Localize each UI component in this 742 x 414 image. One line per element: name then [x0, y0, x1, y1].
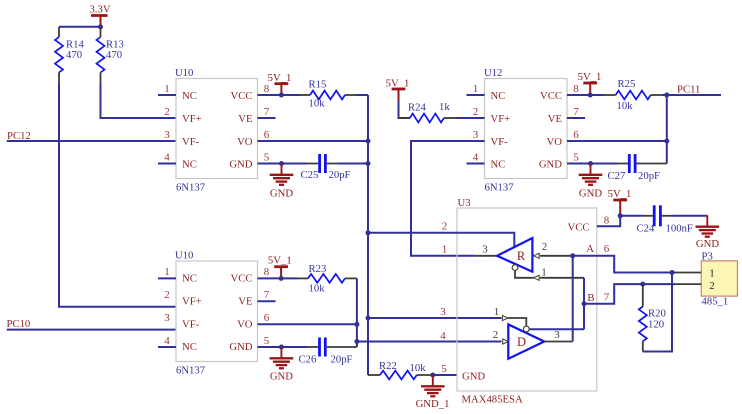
- junction A-P3 node: [670, 270, 675, 275]
- resistor R20 value 120: [648, 319, 664, 331]
- U10 designator: [175, 250, 193, 262]
- svg-text:C24: C24: [637, 223, 655, 235]
- resistor R25: [616, 91, 651, 100]
- wire U10b VO row: [258, 323, 357, 325]
- U3 pin number 7: [604, 292, 610, 304]
- capacitor C24: [654, 205, 660, 226]
- resistor R20: [639, 307, 647, 342]
- svg-text:8: 8: [264, 266, 270, 278]
- junction DI tee on R23 bus: [354, 339, 359, 344]
- power port 5V_1 at R24 label: [386, 77, 410, 89]
- svg-text:VO: VO: [237, 136, 253, 148]
- U3 inner pin number 3 at D out: [554, 329, 560, 341]
- resistor R13 designator: [106, 39, 124, 51]
- net label PC10: [7, 318, 31, 330]
- optocoupler U10 body: [176, 261, 258, 362]
- svg-text:MAX485ESA: MAX485ESA: [462, 394, 523, 406]
- svg-text:470: 470: [106, 49, 122, 61]
- junction A node inner: [570, 253, 575, 258]
- U3 pin number 5: [441, 363, 447, 375]
- U10 pin name GND: [229, 341, 252, 353]
- net label PC11: [677, 83, 700, 95]
- U10 pin number 7: [264, 106, 270, 118]
- svg-text:C27: C27: [608, 170, 626, 182]
- svg-text:2: 2: [164, 289, 170, 301]
- power port 5V_1 at U10b label: [268, 255, 292, 267]
- svg-text:R15: R15: [309, 79, 327, 91]
- connector P3 body: [701, 261, 737, 296]
- U10b pin 7 stub: [258, 300, 276, 302]
- svg-text:100nF: 100nF: [666, 223, 693, 235]
- svg-text:R24: R24: [408, 102, 426, 114]
- U10 pin number 1: [164, 266, 170, 278]
- svg-text:6N137: 6N137: [176, 364, 206, 376]
- svg-text:VF+: VF+: [491, 113, 511, 125]
- U3 receiver letter R: [517, 249, 526, 263]
- ground GND label at U10a: [270, 187, 293, 199]
- U12 pin 7 stub: [567, 117, 585, 119]
- U10 pin name NC: [182, 159, 197, 171]
- U12 pin number 5: [573, 151, 579, 163]
- U10 pin name VF-: [182, 136, 200, 148]
- svg-text:5: 5: [264, 335, 270, 347]
- U10 pin name VF+: [182, 113, 202, 125]
- wire PC11 bus vertical: [666, 95, 668, 164]
- svg-text:VE: VE: [548, 113, 562, 125]
- svg-text:3: 3: [164, 129, 170, 141]
- wire R input 2 to A node: [540, 255, 573, 257]
- U3 pin name GND: [462, 371, 485, 383]
- U10 pin name VF-: [182, 319, 200, 331]
- wire bus corner to R22: [368, 374, 380, 376]
- capacitor C25 value 20pF: [329, 169, 351, 181]
- U10a pin 1 stub: [158, 94, 176, 96]
- ground symbol GND at C24: [696, 215, 720, 236]
- wire R25 to PC11: [662, 94, 721, 96]
- svg-text:3: 3: [482, 243, 488, 255]
- resistor R24 right lead: [444, 117, 456, 119]
- U10 pin name VF+: [182, 296, 202, 308]
- junction VO1 on bus: [366, 139, 371, 144]
- U10 pin name VCC: [231, 90, 253, 102]
- U10 pin number 3: [164, 312, 170, 324]
- U3 inner pin number 1 at DE: [494, 306, 500, 318]
- U3 driver letter D: [517, 335, 526, 349]
- wire 3.3V node to R14 top: [59, 26, 101, 28]
- P3 net 485_1 label: [702, 296, 729, 308]
- svg-text:2: 2: [709, 280, 715, 292]
- U12 pin number 3: [473, 129, 479, 141]
- svg-text:20pF: 20pF: [638, 170, 660, 182]
- capacitor C24 left lead: [643, 215, 653, 217]
- resistor R13: [97, 37, 105, 73]
- wire R24 to U12 VF+: [456, 117, 485, 119]
- svg-text:D: D: [517, 335, 526, 349]
- junction GND_1 node: [430, 373, 435, 378]
- U3 pin name B: [587, 292, 594, 304]
- resistor R13 top lead: [100, 27, 102, 37]
- U10 pin name GND: [229, 159, 252, 171]
- svg-text:1: 1: [442, 244, 448, 256]
- svg-text:3: 3: [440, 306, 446, 318]
- svg-text:GND: GND: [539, 159, 562, 171]
- svg-text:5V_1: 5V_1: [608, 188, 632, 200]
- resistor R22 designator: [379, 360, 397, 372]
- svg-text:VF+: VF+: [182, 113, 202, 125]
- svg-text:NC: NC: [182, 159, 197, 171]
- U12 pin name NC: [491, 90, 506, 102]
- wire PC10 to U10b VF-: [7, 329, 176, 331]
- svg-text:2: 2: [164, 106, 170, 118]
- svg-text:3.3V: 3.3V: [89, 4, 110, 16]
- U3 driver triangle D: [508, 324, 544, 358]
- svg-text:PC10: PC10: [7, 318, 31, 330]
- U10 pin name VE: [238, 296, 252, 308]
- U3 pin name A: [586, 243, 594, 255]
- svg-text:10k: 10k: [617, 100, 634, 112]
- resistor R24 left lead: [399, 117, 410, 119]
- svg-text:7: 7: [573, 106, 579, 118]
- wire C24 row: [620, 215, 643, 217]
- U10b pin 4 stub: [158, 346, 176, 348]
- capacitor C24 value 100nF: [666, 223, 693, 235]
- svg-text:4: 4: [440, 330, 446, 342]
- svg-text:20pF: 20pF: [329, 169, 351, 181]
- svg-text:VF+: VF+: [182, 296, 202, 308]
- wire U12 GND row: [567, 163, 618, 165]
- svg-text:5V_1: 5V_1: [268, 255, 292, 267]
- resistor R13 value 470: [106, 49, 122, 61]
- optocoupler U10 body: [176, 79, 258, 179]
- junction B node inner: [582, 301, 587, 306]
- U12 pin name VO: [547, 136, 563, 148]
- junction U12 VCC node: [588, 93, 593, 98]
- resistor R23: [308, 274, 345, 283]
- U3 receiver triangle R: [497, 238, 532, 272]
- wire D bubble to B vertical: [529, 328, 584, 330]
- svg-text:P3: P3: [702, 250, 713, 262]
- U10 pin number 5: [264, 335, 270, 347]
- resistor R22: [380, 371, 417, 380]
- wire RO vertical: [411, 141, 485, 256]
- resistor R25 left lead: [605, 94, 616, 96]
- ground symbol GND at U10a: [270, 164, 294, 185]
- svg-text:GND_1: GND_1: [416, 398, 450, 410]
- resistor R25 right lead: [651, 94, 662, 96]
- capacitor C27: [629, 154, 635, 173]
- svg-text:10k: 10k: [309, 283, 326, 295]
- svg-text:GND: GND: [579, 187, 602, 199]
- junction U12 VO node: [664, 139, 669, 144]
- svg-text:6N137: 6N137: [176, 181, 206, 193]
- svg-text:U10: U10: [175, 67, 193, 79]
- capacitor C24 designator: [637, 223, 655, 235]
- capacitor C27 right lead: [637, 163, 667, 165]
- capacitor C27 left lead: [618, 163, 629, 165]
- svg-text:VE: VE: [238, 113, 252, 125]
- junction PC11 node: [664, 93, 669, 98]
- resistor R20 top lead: [642, 284, 644, 306]
- ground symbol GND at U12: [579, 164, 603, 185]
- wire PC12 to U10a VF-: [7, 140, 176, 142]
- U12 pin number 2: [473, 106, 479, 118]
- svg-text:3: 3: [554, 329, 560, 341]
- U12 pin name GND: [539, 159, 562, 171]
- wire R23 vertical bus: [356, 278, 358, 347]
- junction U12 GND node: [588, 161, 593, 166]
- ground GND label at U12: [579, 187, 602, 199]
- U3 inner pin number 2 at DI: [493, 329, 499, 341]
- capacitor C26 right lead: [327, 346, 357, 348]
- svg-text:4: 4: [473, 151, 479, 163]
- ground GND label at C24: [696, 238, 719, 250]
- resistor R15 designator: [309, 79, 327, 91]
- wire 5V_1 to R24: [399, 100, 410, 118]
- svg-text:VCC: VCC: [231, 90, 253, 102]
- U12 pin number 6: [573, 129, 579, 141]
- svg-text:470: 470: [66, 49, 82, 61]
- wire C25 to bus: [338, 163, 368, 165]
- U3 part number MAX485ESA: [462, 394, 523, 406]
- svg-text:1k: 1k: [439, 101, 450, 113]
- U3 driver bubble: [523, 326, 529, 332]
- svg-text:120: 120: [648, 319, 664, 331]
- U10 pin name VO: [237, 136, 253, 148]
- capacitor C26 designator: [299, 354, 317, 366]
- wire U10a VO to bus: [258, 140, 369, 142]
- junction B-R20 node: [640, 282, 645, 287]
- U10 designator: [175, 67, 193, 79]
- ground symbol GND_1: [421, 375, 445, 396]
- svg-text:GND: GND: [270, 187, 293, 199]
- junction 3.3V node: [98, 24, 103, 29]
- resistor R14 bottom lead: [58, 73, 60, 84]
- U12 designator: [484, 67, 502, 79]
- resistor R22 right lead: [417, 374, 433, 376]
- capacitor C26 left lead: [307, 346, 318, 348]
- svg-text:4: 4: [164, 335, 170, 347]
- svg-text:U12: U12: [484, 67, 502, 79]
- wire U3 VCC to 5V: [597, 216, 620, 227]
- U3 pin number 1: [442, 244, 448, 256]
- svg-text:485_1: 485_1: [702, 296, 729, 308]
- resistor R14 designator: [66, 39, 84, 51]
- resistor R22 value 10k: [410, 362, 427, 374]
- U3 inner pin number 1 at R input: [541, 266, 547, 278]
- svg-text:VCC: VCC: [568, 221, 590, 233]
- resistor R23 left lead: [297, 277, 308, 279]
- power port 5V_1 at C24 bar: [613, 200, 627, 216]
- resistor R24: [410, 114, 444, 123]
- wire DE row: [368, 317, 502, 319]
- svg-text:GND: GND: [462, 371, 485, 383]
- svg-text:6: 6: [604, 243, 610, 255]
- svg-text:1: 1: [164, 83, 170, 95]
- U10 pin name VCC: [231, 273, 253, 285]
- U3 receiver bubble: [512, 265, 518, 271]
- junction C25 on bus: [366, 161, 371, 166]
- junction DE on bus: [366, 316, 371, 321]
- junction RE on bus: [366, 230, 371, 235]
- resistor R25 designator: [618, 78, 636, 90]
- svg-text:6: 6: [264, 129, 270, 141]
- U3 inner pin number 3 at RO: [482, 243, 488, 255]
- P3 designator: [702, 250, 713, 262]
- U10 pin number 7: [264, 289, 270, 301]
- resistor R23 right lead: [345, 277, 357, 279]
- svg-text:2: 2: [493, 329, 499, 341]
- wire D output: [544, 341, 573, 343]
- P3 pin 2 stub: [676, 283, 702, 285]
- U10 pin number 8: [264, 83, 270, 95]
- resistor R15 value 10k: [309, 98, 326, 110]
- svg-text:6: 6: [573, 129, 579, 141]
- svg-text:VCC: VCC: [231, 273, 253, 285]
- ground GND label at U10b: [270, 371, 293, 383]
- junction VO2 on R23 bus: [354, 322, 359, 327]
- svg-text:5V_1: 5V_1: [268, 72, 292, 84]
- U12 pin 4 stub: [467, 163, 485, 165]
- resistor R14 value 470: [66, 49, 82, 61]
- U10 pin number 4: [164, 335, 170, 347]
- svg-text:NC: NC: [491, 159, 506, 171]
- ground symbol GND at U10b: [270, 347, 294, 368]
- resistor R15: [310, 91, 345, 100]
- U10 pin number 4: [164, 151, 170, 163]
- svg-text:7: 7: [264, 289, 270, 301]
- wire R bubble to pin 1 row: [515, 271, 534, 278]
- wire R14 to U10b VF+: [59, 83, 176, 307]
- capacitor C26: [320, 338, 326, 357]
- power port 5V_1 at U10a label: [268, 72, 292, 84]
- svg-text:2: 2: [442, 221, 448, 233]
- resistor R20 bottom lead: [642, 341, 644, 351]
- wire B inner vertical: [583, 278, 585, 330]
- power port 5V_1 at C24 label: [608, 188, 632, 200]
- U3 designator: [458, 197, 471, 209]
- U3 pin number 8: [604, 215, 610, 227]
- power port 5V_1 at U12 bar: [583, 83, 597, 95]
- svg-text:R: R: [517, 249, 526, 263]
- U10 pin name VE: [238, 113, 252, 125]
- capacitor C25 designator: [301, 169, 319, 181]
- power port 5V_1 at U12 label: [578, 71, 602, 83]
- svg-text:10k: 10k: [410, 362, 427, 374]
- svg-text:NC: NC: [491, 90, 506, 102]
- wire R13 to U10a VF+: [101, 83, 177, 118]
- svg-text:2: 2: [473, 106, 479, 118]
- junction U10a GND node: [279, 161, 284, 166]
- svg-text:4: 4: [164, 151, 170, 163]
- svg-text:3: 3: [164, 312, 170, 324]
- net label PC12: [7, 130, 31, 142]
- svg-text:8: 8: [604, 215, 610, 227]
- power port 3.3V bar: [91, 16, 108, 27]
- svg-text:B: B: [587, 292, 594, 304]
- svg-text:8: 8: [264, 83, 270, 95]
- wire DE to bubble: [508, 318, 526, 326]
- svg-text:1: 1: [164, 266, 170, 278]
- resistor R20 designator: [648, 308, 666, 320]
- junction C24 node: [618, 213, 623, 218]
- U10 pin name NC: [182, 273, 197, 285]
- power port 5V_1 at U10a bar: [275, 84, 289, 95]
- wire R22 to U3 GND pin: [433, 374, 457, 376]
- svg-text:VF-: VF-: [491, 136, 509, 148]
- svg-text:U10: U10: [175, 250, 193, 262]
- U10 pin number 2: [164, 289, 170, 301]
- capacitor C25: [320, 154, 326, 173]
- P3 pin 1 stub: [676, 272, 702, 274]
- junction U10a VCC node: [279, 93, 284, 98]
- U12 pin name VE: [548, 113, 562, 125]
- U10 pin name NC: [182, 341, 197, 353]
- wire U12 VO row: [567, 140, 667, 142]
- wire RE row: [368, 233, 514, 247]
- U12 pin 1 stub: [467, 94, 485, 96]
- svg-text:VO: VO: [547, 136, 563, 148]
- U10b pin 1 stub: [158, 277, 176, 279]
- resistor R24 designator: [408, 102, 426, 114]
- resistor R14: [55, 37, 63, 73]
- wire U12 VCC to R25: [567, 94, 605, 96]
- svg-text:3: 3: [473, 129, 479, 141]
- svg-text:6N137: 6N137: [485, 181, 515, 193]
- resistor R13 bottom lead: [100, 73, 102, 84]
- U10 pin number 8: [264, 266, 270, 278]
- U10a pin 7 stub: [258, 117, 276, 119]
- U10 part number 6N137: [176, 364, 206, 376]
- U10 pin number 2: [164, 106, 170, 118]
- svg-text:GND: GND: [696, 238, 719, 250]
- capacitor C26 value 20pF: [331, 354, 353, 366]
- U12 pin name VF-: [491, 136, 509, 148]
- ground GND_1 label: [416, 398, 450, 410]
- wire U3 RO to U12 VF-: [475, 255, 497, 257]
- svg-text:VCC: VCC: [540, 90, 562, 102]
- U10 pin name VO: [237, 319, 253, 331]
- svg-text:R22: R22: [379, 360, 397, 372]
- capacitor C27 value 20pF: [638, 170, 660, 182]
- P3 pin 2 number: [709, 280, 715, 292]
- wire vertical bus VO1/RE/DE: [367, 95, 369, 375]
- svg-text:10k: 10k: [309, 98, 326, 110]
- svg-text:8: 8: [573, 83, 579, 95]
- U3 inner pin number 2 at R input: [542, 241, 548, 253]
- U10 pin number 3: [164, 129, 170, 141]
- U3 pin name VCC: [568, 221, 590, 233]
- svg-text:A: A: [586, 243, 594, 255]
- wire R20 bottom to A net: [643, 273, 672, 352]
- resistor R15 right lead: [345, 94, 357, 96]
- svg-text:NC: NC: [182, 341, 197, 353]
- U12 pin number 1: [473, 83, 479, 95]
- svg-text:VF-: VF-: [182, 136, 200, 148]
- U10 pin number 5: [264, 151, 270, 163]
- U10 pin number 6: [264, 129, 270, 141]
- capacitor C27 designator: [608, 170, 626, 182]
- wire U10a GND row: [258, 163, 308, 165]
- wire R input 1 to B vertical: [540, 277, 584, 279]
- U12 part number 6N137: [485, 181, 515, 193]
- svg-text:NC: NC: [182, 273, 197, 285]
- U12 pin number 4: [473, 151, 479, 163]
- ic U3 body: [457, 208, 597, 391]
- wire U10b GND row: [258, 346, 308, 348]
- U3 R input arrow pin 1: [534, 275, 540, 280]
- svg-text:2: 2: [542, 241, 548, 253]
- U10 pin number 1: [164, 83, 170, 95]
